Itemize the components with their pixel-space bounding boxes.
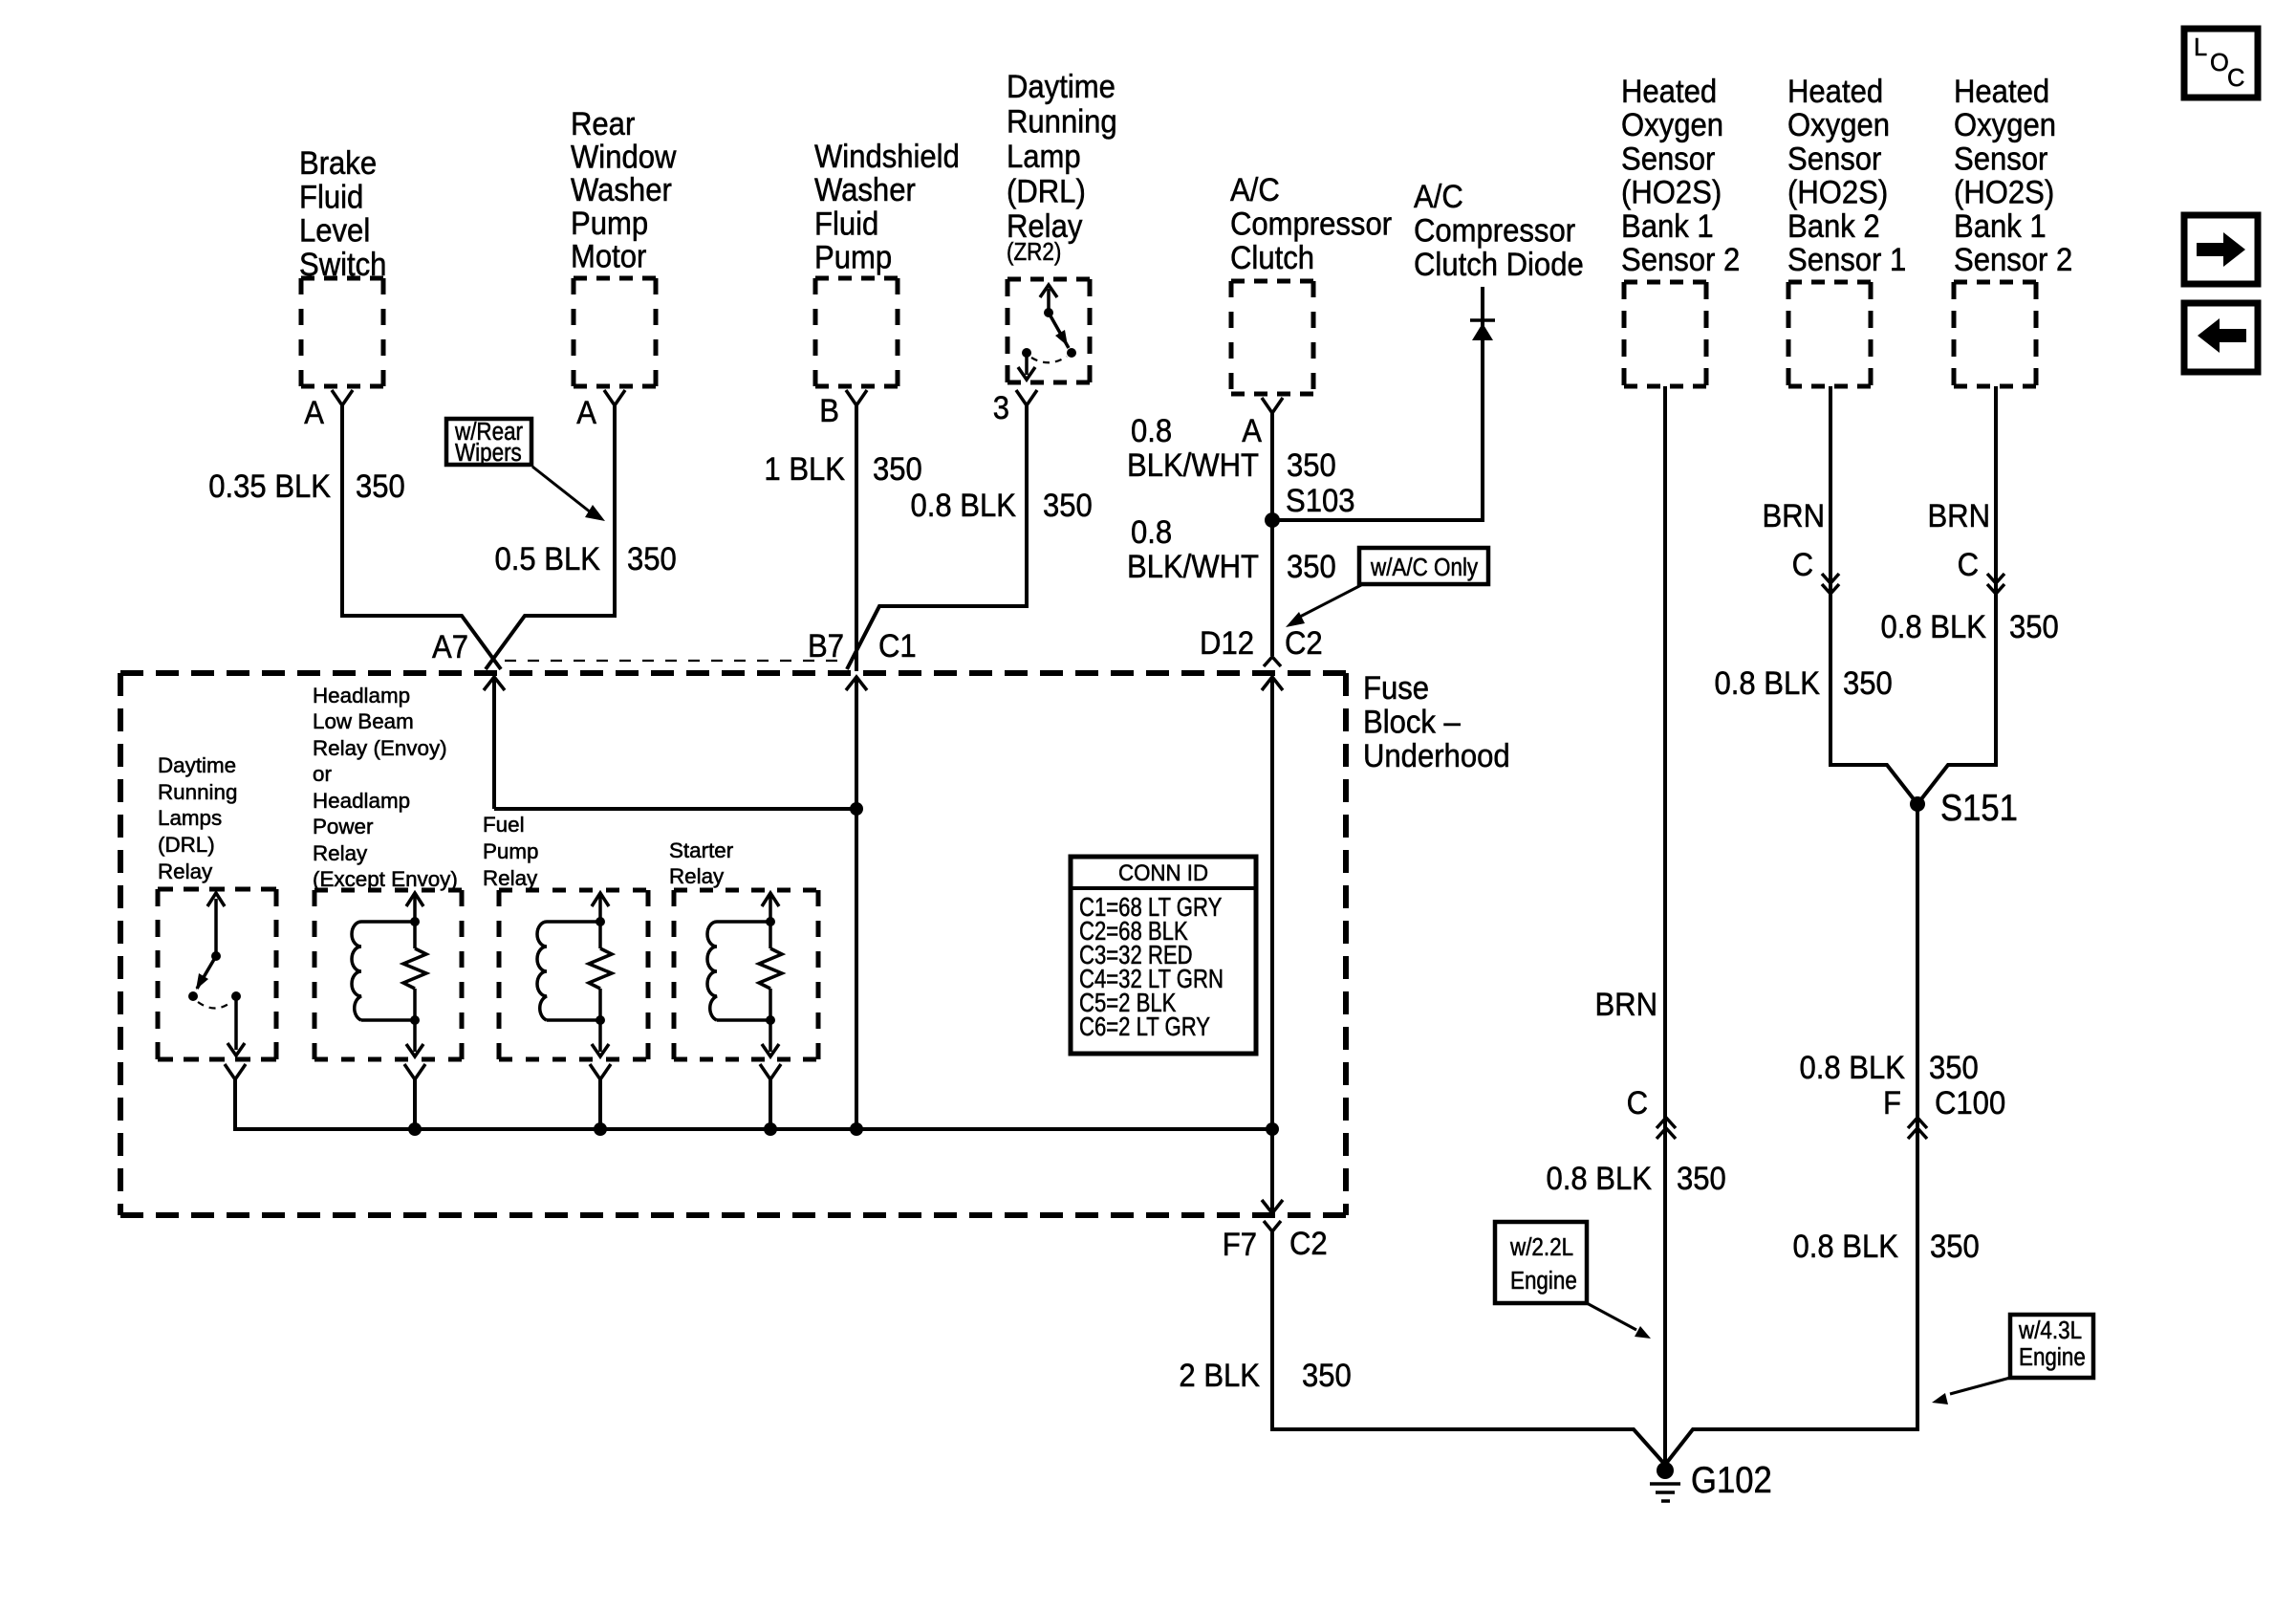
svg-text:Bank 2: Bank 2: [1787, 207, 1880, 244]
svg-text:Oxygen: Oxygen: [1954, 106, 2056, 143]
svg-text:0.8 BLK: 0.8 BLK: [1715, 664, 1821, 701]
svg-text:Relay: Relay: [313, 841, 368, 865]
svg-text:Heated: Heated: [1787, 72, 1883, 109]
svg-text:Low Beam: Low Beam: [313, 709, 414, 733]
windshield washer fluid pump connector box: [815, 278, 898, 386]
fuse block underhood dashed border: [120, 673, 1346, 1215]
A/C compressor clutch diode label: [1414, 177, 1584, 282]
A/C compressor clutch label: [1230, 170, 1392, 275]
wire 0.8 BLK 350 from ZR2 relay to B7: [847, 405, 1027, 669]
inline connector chevrons C100 on S151 wire: [1908, 1118, 1927, 1139]
connector Y at A/C compressor clutch: [1262, 398, 1283, 413]
svg-text:C2: C2: [1285, 623, 1323, 661]
svg-text:Pump: Pump: [814, 238, 892, 275]
heated oxygen sensor HO2S Bank 1 Sensor 2 (right) label: [1954, 72, 2072, 277]
svg-text:BRN: BRN: [1594, 985, 1657, 1022]
svg-text:350: 350: [873, 449, 922, 487]
svg-text:Fluid: Fluid: [299, 178, 363, 215]
callout w/4.3L Engine: [2010, 1315, 2093, 1378]
svg-text:Rear: Rear: [571, 104, 635, 142]
svg-text:350: 350: [2009, 607, 2059, 644]
svg-text:Sensor: Sensor: [1621, 140, 1715, 177]
svg-text:(ZR2): (ZR2): [1007, 239, 1061, 267]
svg-text:A: A: [304, 393, 324, 430]
svg-text:0.8 BLK: 0.8 BLK: [1547, 1159, 1653, 1196]
svg-text:350: 350: [1287, 446, 1336, 483]
svg-text:Window: Window: [571, 138, 677, 175]
svg-text:350: 350: [1043, 486, 1093, 523]
junction dot D12 wire at ground bus: [1266, 1122, 1279, 1136]
svg-text:0.8 BLK: 0.8 BLK: [911, 486, 1017, 523]
svg-text:C1: C1: [878, 626, 917, 664]
svg-text:Brake: Brake: [299, 143, 377, 181]
svg-text:Clutch: Clutch: [1230, 239, 1314, 276]
svg-text:C: C: [1792, 545, 1813, 582]
connector Y at rear washer motor: [604, 390, 625, 405]
fuel pump relay coil-resistor box: [499, 890, 648, 1059]
svg-text:Motor: Motor: [571, 237, 646, 274]
wire 0.8 BLK/WHT 350 from A/C clutch to S103: [1270, 413, 1274, 520]
svg-text:C100: C100: [1935, 1083, 2005, 1121]
svg-text:Engine: Engine: [2019, 1344, 2086, 1372]
HO2S middle connector box: [1788, 282, 1871, 386]
A/C compressor clutch connector box: [1231, 281, 1313, 394]
svg-text:Compressor: Compressor: [1414, 211, 1575, 249]
brake fluid level switch connector box: [301, 278, 383, 386]
svg-text:350: 350: [1930, 1227, 1980, 1264]
svg-text:C: C: [1627, 1083, 1648, 1121]
ground G102: [1650, 1462, 1680, 1501]
wire 0.8 BLK 350 from S151 down through C100 to G102: [1665, 804, 1917, 1465]
svg-text:Oxygen: Oxygen: [1787, 106, 1890, 143]
svg-text:Running: Running: [1007, 102, 1117, 140]
splice S151: [1910, 796, 1925, 812]
svg-text:Relay: Relay: [158, 860, 213, 883]
starter relay coil-resistor box: [674, 890, 818, 1059]
connector Y at windshield washer pump: [846, 390, 867, 405]
thin dashed connector line between A7 and B7: [505, 660, 845, 662]
leader arrow from w/4.3L Engine callout: [1932, 1378, 2010, 1404]
svg-text:Sensor 2: Sensor 2: [1621, 240, 1740, 277]
svg-text:Level: Level: [299, 211, 370, 249]
svg-text:Daytime: Daytime: [1007, 67, 1116, 104]
svg-text:F: F: [1883, 1083, 1901, 1121]
wire from A7 entry to B7 wire junction: [494, 807, 856, 811]
svg-text:C: C: [2227, 65, 2244, 92]
left arrow legend box: [2184, 303, 2258, 372]
svg-text:C2: C2: [1289, 1224, 1328, 1261]
svg-text:0.8 BLK: 0.8 BLK: [1800, 1048, 1906, 1085]
svg-text:Clutch Diode: Clutch Diode: [1414, 246, 1584, 283]
svg-text:Relay (Envoy): Relay (Envoy): [313, 736, 447, 760]
svg-text:0.8: 0.8: [1131, 411, 1172, 448]
connector Y at ZR2 relay: [1016, 390, 1037, 405]
svg-text:S103: S103: [1286, 481, 1355, 518]
svg-text:Starter: Starter: [669, 838, 734, 862]
inline connector chevrons C on left HO2S wire: [1657, 1118, 1676, 1139]
daytime running lamp DRL relay ZR2 label: [1007, 67, 1117, 266]
svg-text:A: A: [1242, 411, 1262, 448]
svg-text:0.8 BLK: 0.8 BLK: [1881, 607, 1987, 644]
svg-text:w/4.3L: w/4.3L: [2018, 1317, 2082, 1345]
svg-text:Block –: Block –: [1363, 703, 1462, 740]
inline connector chevrons C on middle HO2S wire: [1822, 574, 1839, 594]
svg-text:Power: Power: [313, 815, 374, 838]
svg-text:350: 350: [1929, 1048, 1979, 1085]
svg-text:(HO2S): (HO2S): [1787, 173, 1888, 210]
svg-text:(Except Envoy): (Except Envoy): [313, 867, 458, 891]
svg-text:C: C: [1958, 545, 1979, 582]
callout w/2.2L Engine: [1495, 1222, 1587, 1303]
svg-text:Compressor: Compressor: [1230, 205, 1392, 242]
svg-text:Fuse: Fuse: [1363, 668, 1429, 706]
A/C compressor clutch diode symbol: [1470, 287, 1495, 340]
svg-text:Sensor: Sensor: [1787, 140, 1881, 177]
svg-text:Oxygen: Oxygen: [1621, 106, 1723, 143]
D12 entry arrow inside fuse block: [1262, 677, 1283, 1129]
A7 entry arrow inside fuse block: [484, 677, 505, 809]
svg-text:0.8: 0.8: [1131, 512, 1172, 550]
svg-text:(DRL): (DRL): [1007, 172, 1086, 209]
svg-text:BLK/WHT: BLK/WHT: [1127, 446, 1259, 483]
svg-text:Lamp: Lamp: [1007, 137, 1081, 174]
wire 0.5 BLK 350 from rear washer motor to A7: [486, 405, 615, 669]
leader arrow from w/Rear Wipers callout: [532, 467, 605, 521]
svg-text:Pump: Pump: [571, 204, 648, 241]
headlamp low beam / power relay coil-resistor box: [314, 890, 462, 1059]
svg-text:350: 350: [1287, 547, 1336, 584]
heated oxygen sensor HO2S Bank 2 Sensor 1 (middle) label: [1787, 72, 1906, 277]
svg-text:Wipers: Wipers: [455, 440, 522, 468]
svg-text:350: 350: [1302, 1356, 1352, 1393]
connector Y at brake switch: [332, 390, 353, 405]
wire BRN from right HO2S to S151: [1917, 386, 1996, 804]
svg-text:Heated: Heated: [1621, 72, 1717, 109]
svg-text:Washer: Washer: [571, 171, 672, 208]
B7 entry arrow inside fuse block: [846, 677, 867, 1129]
svg-text:0.8 BLK: 0.8 BLK: [1793, 1227, 1899, 1264]
svg-text:D12: D12: [1200, 623, 1254, 661]
svg-text:B7: B7: [808, 626, 844, 664]
svg-text:350: 350: [1843, 664, 1893, 701]
F7 exit arrow at fuse block bottom: [1262, 1129, 1283, 1213]
svg-text:Engine: Engine: [1510, 1268, 1577, 1295]
leader arrow from w/A/C Only callout: [1286, 585, 1361, 627]
svg-text:Bank 1: Bank 1: [1621, 207, 1714, 244]
svg-text:C6=2 LT GRY: C6=2 LT GRY: [1079, 1012, 1210, 1042]
svg-text:(HO2S): (HO2S): [1621, 173, 1722, 210]
svg-text:A/C: A/C: [1230, 170, 1280, 207]
svg-text:O: O: [2210, 50, 2229, 76]
starter relay label in fuse block: [669, 838, 734, 888]
wire 0.8 BLK/WHT 350 from S103 to D12: [1270, 520, 1274, 656]
DRL relay switch symbol: [188, 893, 245, 1056]
svg-text:3: 3: [993, 388, 1009, 425]
svg-text:A: A: [576, 393, 596, 430]
junction dot on B7 wire: [850, 802, 863, 816]
rear window washer pump motor connector box: [574, 278, 656, 386]
fuel pump relay label in fuse block: [483, 813, 539, 890]
svg-text:Bank 1: Bank 1: [1954, 207, 2047, 244]
svg-text:G102: G102: [1691, 1459, 1772, 1500]
LOC legend box: [2184, 29, 2258, 98]
wire 0.35 BLK 350 from brake switch to A7: [342, 405, 501, 669]
svg-text:w/2.2L: w/2.2L: [1509, 1234, 1573, 1262]
svg-text:w/A/C Only: w/A/C Only: [1370, 555, 1478, 582]
svg-text:350: 350: [627, 539, 677, 577]
svg-text:(HO2S): (HO2S): [1954, 173, 2054, 210]
brake fluid level switch label: [299, 143, 386, 282]
svg-text:Running: Running: [158, 780, 237, 804]
daytime running lamp relay ZR2 connector box: [1007, 279, 1090, 382]
wire from S103 to A/C clutch diode: [1272, 337, 1483, 520]
svg-text:Lamps: Lamps: [158, 806, 222, 830]
svg-text:F7: F7: [1223, 1225, 1257, 1262]
label 0.8 BLK/WHT upper: [1127, 411, 1259, 483]
heated oxygen sensor HO2S Bank 1 Sensor 2 (left) label: [1621, 72, 1740, 277]
svg-text:Fluid: Fluid: [814, 205, 878, 242]
svg-text:CONN ID: CONN ID: [1118, 860, 1208, 885]
svg-text:Headlamp: Headlamp: [313, 789, 410, 813]
svg-text:B: B: [819, 391, 839, 428]
DRL relay dashed box in fuse block: [158, 889, 276, 1059]
wire BRN from left HO2S down to G102: [1663, 386, 1667, 1467]
label Fuse Block Underhood: [1363, 668, 1510, 773]
svg-text:0.35 BLK: 0.35 BLK: [208, 467, 331, 504]
callout w/Rear Wipers: [446, 419, 531, 468]
svg-text:350: 350: [1677, 1159, 1726, 1196]
svg-text:L: L: [2194, 34, 2207, 61]
callout w/A/C Only: [1359, 548, 1488, 584]
svg-text:Pump: Pump: [483, 839, 539, 863]
headlamp low beam relay label in fuse block: [313, 684, 458, 891]
connector chevron at D12: [1264, 657, 1281, 666]
svg-text:Fuel: Fuel: [483, 813, 525, 837]
wire 1 BLK 350 from windshield washer pump to B7: [855, 405, 858, 671]
connector Y below DRL relay: [225, 1064, 246, 1079]
svg-text:0.5 BLK: 0.5 BLK: [495, 539, 601, 577]
junction dot B7 wire at ground bus: [850, 1122, 863, 1136]
svg-text:Heated: Heated: [1954, 72, 2049, 109]
splice S103: [1265, 512, 1280, 528]
HO2S right connector box: [1954, 282, 2036, 386]
svg-text:or: or: [313, 762, 332, 786]
daytime running lamps DRL relay label in fuse block: [158, 753, 237, 883]
svg-text:BLK/WHT: BLK/WHT: [1127, 547, 1259, 584]
svg-text:Windshield: Windshield: [814, 137, 960, 174]
svg-text:Daytime: Daytime: [158, 753, 236, 777]
svg-text:BRN: BRN: [1927, 496, 1990, 533]
svg-text:2 BLK: 2 BLK: [1179, 1356, 1260, 1393]
svg-text:Sensor 1: Sensor 1: [1787, 240, 1906, 277]
svg-text:Relay: Relay: [483, 866, 538, 890]
svg-text:Sensor 2: Sensor 2: [1954, 240, 2072, 277]
svg-text:Washer: Washer: [814, 171, 916, 208]
svg-text:350: 350: [356, 467, 405, 504]
wire 2 BLK 350 from F7 to G102: [1272, 1231, 1665, 1465]
inline connector chevrons C on right HO2S wire: [1987, 574, 2004, 594]
wire BRN from middle HO2S to S151: [1830, 386, 1917, 804]
svg-text:BRN: BRN: [1762, 496, 1825, 533]
svg-text:S151: S151: [1940, 787, 2018, 828]
svg-text:1 BLK: 1 BLK: [764, 449, 845, 487]
svg-text:(DRL): (DRL): [158, 833, 215, 857]
svg-text:Relay: Relay: [669, 864, 725, 888]
windshield washer fluid pump label: [814, 137, 960, 274]
CONN ID table: [1071, 857, 1256, 1054]
svg-text:A/C: A/C: [1414, 177, 1463, 214]
svg-text:Sensor: Sensor: [1954, 140, 2047, 177]
connector chevron at F7: [1264, 1221, 1281, 1231]
svg-text:Headlamp: Headlamp: [313, 684, 410, 708]
svg-text:A7: A7: [432, 627, 468, 664]
rear window washer pump motor label: [571, 104, 677, 273]
ZR2 relay switch symbol: [1018, 285, 1076, 380]
HO2S left connector box: [1624, 282, 1706, 386]
label 0.8 BLK/WHT lower: [1127, 512, 1259, 584]
wire from DRL relay to ground bus: [235, 1079, 1272, 1129]
right arrow legend box: [2184, 215, 2258, 284]
svg-text:Underhood: Underhood: [1363, 736, 1510, 773]
leader arrow from w/2.2L Engine callout: [1587, 1303, 1651, 1339]
